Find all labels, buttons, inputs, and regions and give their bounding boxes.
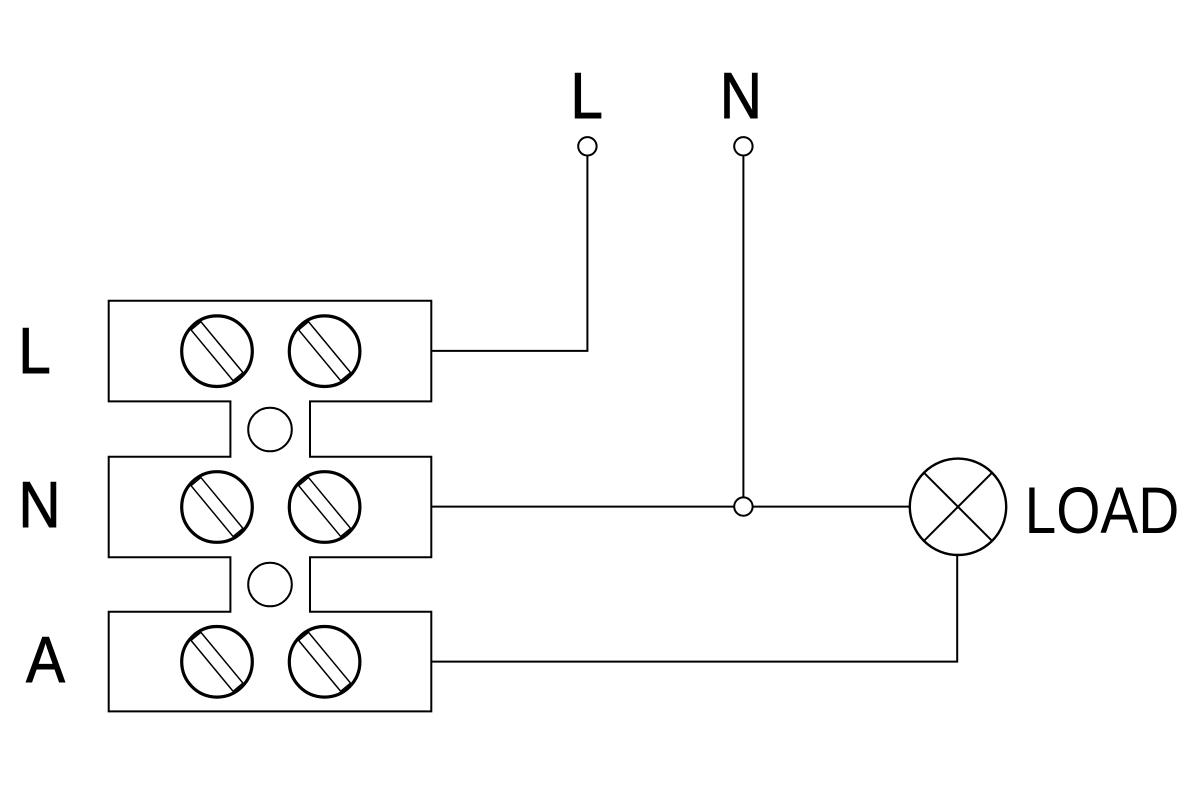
svg-text:L: L	[570, 60, 603, 133]
svg-text:L: L	[18, 315, 51, 388]
svg-text:LOAD: LOAD	[1025, 474, 1180, 548]
svg-text:A: A	[26, 624, 66, 697]
svg-text:N: N	[18, 469, 60, 542]
svg-text:N: N	[720, 60, 762, 133]
